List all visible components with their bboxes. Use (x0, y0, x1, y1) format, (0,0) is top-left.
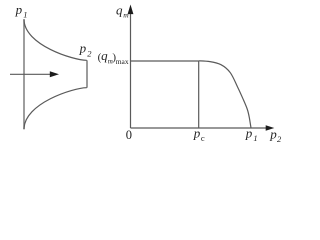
svg-text:p: p (15, 2, 23, 17)
svg-text:0: 0 (126, 128, 132, 142)
svg-text:p: p (245, 125, 253, 140)
svg-text:q: q (116, 2, 123, 17)
svg-text:max: max (116, 57, 129, 66)
svg-text:p: p (79, 40, 87, 55)
svg-text:2: 2 (277, 134, 282, 144)
svg-text:2: 2 (87, 49, 92, 59)
svg-text:1: 1 (253, 133, 257, 143)
svg-text:1: 1 (23, 10, 27, 20)
svg-text:m: m (123, 11, 129, 20)
svg-text:p: p (193, 125, 201, 140)
svg-text:c: c (201, 133, 205, 143)
